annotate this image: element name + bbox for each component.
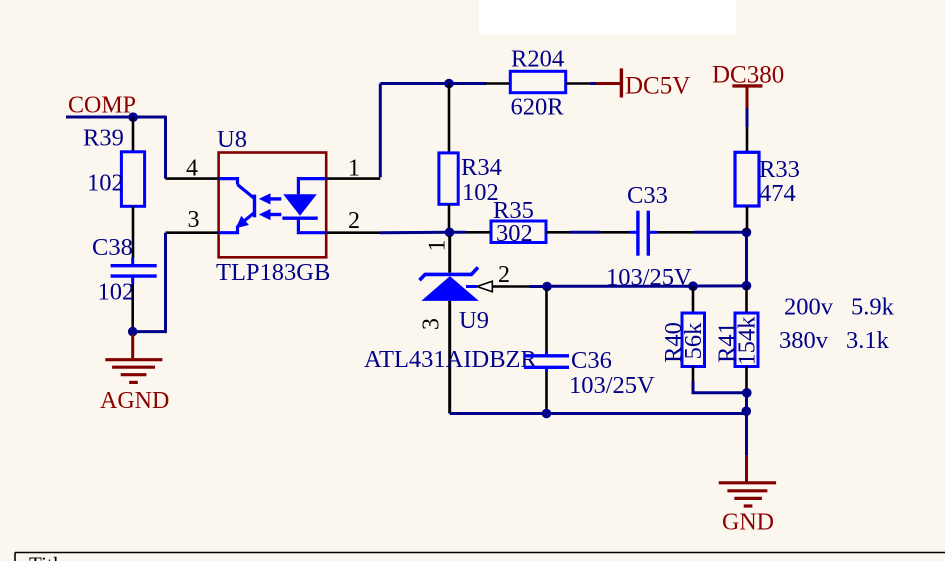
svg-text:2: 2 [498,262,510,288]
svg-text:56k: 56k [680,322,707,360]
svg-text:620R: 620R [511,94,565,121]
svg-text:COMP: COMP [68,93,136,119]
node junction C38/AGND [128,327,138,337]
wire C38 bottom horizontal [133,330,167,333]
capacitor C36 [524,288,569,414]
svg-text:102: 102 [98,279,135,306]
wire R33 node down to R41 node [745,232,748,285]
pin 2 arrowhead U9 [477,281,492,292]
svg-text:TLP183GB: TLP183GB [216,259,330,286]
pin 3 U8 [166,231,219,234]
power port DC380 [732,86,762,108]
svg-text:R34: R34 [461,154,502,181]
node junction bottom rail [742,406,752,416]
resistor R40 [682,286,705,381]
node junction R34/R35/U9 [445,228,455,238]
svg-text:1: 1 [425,240,451,252]
wire top rail [380,82,486,85]
title block border [15,552,945,554]
capacitor C38 [111,258,157,332]
svg-text:3: 3 [419,318,445,330]
wire node to R35 [450,231,467,234]
node junction R40/R41 bottom [742,388,752,398]
wire bottom rail [450,412,747,415]
node junction R41 top [742,281,752,291]
photon arrow 2 [259,209,282,220]
wire stub to DC5V [590,82,596,85]
wire R41 bottom [745,389,748,393]
capacitor C33 [600,211,694,256]
svg-text:102: 102 [87,170,124,197]
node junction COMP/R39 [128,112,138,122]
label R41 rotated [714,322,741,363]
pin 4 U8 [166,177,219,180]
wire R40 node to R41 node [693,284,747,287]
power port DC5V [596,68,621,97]
wire pin1 up to rail [379,84,382,178]
resistor R34 [439,84,458,233]
svg-text:3: 3 [188,207,200,233]
svg-text:1: 1 [348,156,360,182]
svg-text:GND: GND [722,510,774,536]
svg-text:474: 474 [759,180,796,207]
svg-text:DC380: DC380 [712,62,784,89]
value 56k rotated [680,322,707,360]
shunt regulator U9 ATL431 [420,236,479,414]
node junction C36 bottom [542,409,552,419]
svg-text:154k: 154k [734,316,761,366]
wire pin2 row to node [380,231,450,234]
svg-text:200v: 200v [784,294,834,321]
svg-text:C38: C38 [92,234,133,261]
svg-text:R204: R204 [511,46,564,73]
ground AGND [105,334,162,382]
svg-text:AGND: AGND [100,388,169,414]
transistor Q inside U8 [219,179,255,233]
wire pin3 vertical down [164,233,167,332]
svg-text:2: 2 [348,208,360,234]
ground GND [719,456,776,506]
svg-text:ATL431AIDBZR: ATL431AIDBZR [364,346,538,373]
photon arrow 1 [259,193,282,204]
LED inside U8 [282,179,326,233]
wire COMP horizontal [66,116,166,119]
svg-text:U9: U9 [459,307,489,334]
pin 1 U8 [326,177,380,180]
svg-text:380v: 380v [779,327,829,354]
wire R40 bottom elbow [693,381,747,393]
resistor R39 [121,117,144,258]
svg-text:R33: R33 [759,156,800,183]
resistor R33 [735,127,759,232]
node junction rail/R34 [444,79,454,89]
resistor R35 [466,221,570,243]
node junction pin2/C36 [542,282,552,292]
wire DC380 to R33 [746,108,749,127]
pin 2 U8 [326,231,380,234]
wire U9 pin2 to C36 node [530,285,547,288]
wire down to bottom rail [745,393,748,456]
resistor R204 [485,71,590,92]
svg-text:5.9k: 5.9k [851,294,895,321]
svg-text:302: 302 [496,220,533,247]
op-amp U8 optocoupler box [219,153,327,258]
value 154k rotated [734,316,761,366]
svg-text:4: 4 [186,156,198,182]
wire R35 to C33 [570,231,600,234]
resistor R41 [735,286,758,389]
svg-text:C36: C36 [571,347,612,374]
pin number 3 U9 rotated [419,318,445,330]
node junction C33/R33 [742,228,752,238]
wire pin2 row to R40 [547,285,693,288]
svg-text:103/25V: 103/25V [569,372,655,399]
pin 2 U9 [492,285,530,288]
svg-text:DC5V: DC5V [625,73,690,100]
node junction R40 top [688,281,698,291]
svg-text:C33: C33 [627,182,668,209]
pin number 1 U9 rotated [425,240,451,252]
svg-text:Title: Title [29,553,68,561]
label R40 rotated [660,322,687,363]
wire COMP to pin4 vertical [164,116,167,179]
white overlay rectangle top [479,0,736,34]
svg-text:3.1k: 3.1k [846,327,890,354]
wire C33 to R33 node [694,231,747,234]
svg-text:R39: R39 [83,125,124,152]
svg-text:U8: U8 [217,126,247,153]
